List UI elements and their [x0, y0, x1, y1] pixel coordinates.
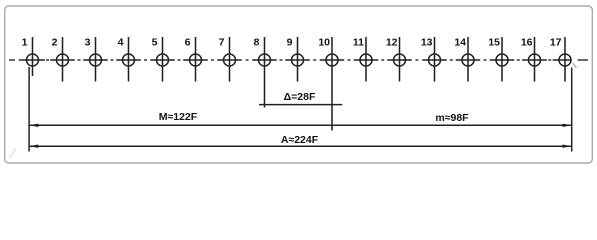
centerline dot between hole 16 and hole 17 [548, 59, 551, 61]
scan artifact slash bottom-left [9, 149, 16, 158]
hole 7 (circle with center mark) [217, 37, 242, 82]
svg-text:17: 17 [550, 37, 562, 49]
centerline dot between hole 11 and hole 12 [381, 59, 384, 61]
dimension line A (overall) [29, 145, 572, 147]
hole 3 (circle with center mark) [83, 37, 108, 82]
outer frame [5, 6, 593, 163]
centerline dot between hole 7 and hole 8 [246, 59, 249, 61]
centerline dot between hole 8 and hole 9 [280, 59, 283, 61]
svg-text:9: 9 [287, 37, 293, 49]
svg-text:1: 1 [22, 37, 28, 49]
arrowhead A left [29, 145, 38, 148]
arrowhead A right [563, 145, 572, 148]
centerline dot between hole 4 and hole 5 [144, 59, 147, 61]
centerline dot between hole 13 and hole 14 [450, 59, 453, 61]
arrowhead M left [29, 124, 38, 127]
hole 15 (circle with center mark) [490, 37, 515, 82]
svg-text:12: 12 [386, 37, 398, 49]
svg-text:13: 13 [421, 37, 433, 49]
centerline dot between hole 3 and hole 4 [111, 59, 114, 61]
centerline dot between hole 9 and hole 10 [313, 59, 316, 61]
hole 6 (circle with center mark) [183, 37, 208, 82]
arrowhead m right [563, 124, 572, 127]
centerline dot between hole 15 and hole 16 [517, 59, 520, 61]
centerline dot between hole 12 and hole 13 [416, 59, 419, 61]
hole 14 (circle with center mark) [456, 37, 481, 82]
hole 9 (circle with center mark) [285, 37, 310, 82]
svg-text:A≈224F: A≈224F [281, 134, 319, 146]
svg-text:4: 4 [118, 37, 124, 49]
hole 1 (circle with center mark) [19, 37, 45, 76]
left extension line (at hole 1) [28, 67, 30, 152]
svg-text:m≈98F: m≈98F [435, 112, 469, 124]
svg-text:5: 5 [152, 37, 158, 49]
centerline trailing dash [578, 59, 589, 61]
hole 5 (circle with center mark) [150, 37, 175, 82]
dimension line M (left ext to hole 10) [29, 124, 332, 126]
dimension line m (hole 10 to right ext) [332, 124, 572, 126]
svg-text:8: 8 [254, 37, 260, 49]
hole 4 (circle with center mark) [116, 37, 141, 82]
centerline dot between hole 5 and hole 6 [178, 59, 181, 61]
scan artifact slash near hole 17 [573, 63, 577, 68]
svg-text:6: 6 [185, 37, 191, 49]
svg-text:14: 14 [454, 37, 466, 49]
right extension line (at hole 17) [571, 68, 573, 152]
hole 2 (circle with center mark) [50, 37, 75, 82]
svg-text:15: 15 [488, 37, 500, 49]
centerline leading dash [9, 59, 15, 61]
hole 16 (circle with center mark) [522, 37, 547, 82]
svg-text:16: 16 [521, 37, 533, 49]
hole 8 (circle with center mark) [252, 37, 277, 108]
svg-text:10: 10 [318, 37, 330, 49]
svg-text:3: 3 [85, 37, 91, 49]
centerline dot between hole 1 and hole 2 [46, 59, 49, 61]
hole 13 (circle with center mark) [422, 37, 447, 82]
centerline dot between hole 2 and hole 3 [78, 59, 81, 61]
hole 10 (circle with center mark) [320, 37, 345, 131]
centerline dot between hole 10 and hole 11 [348, 59, 351, 61]
hole 17 (circle with center mark) [553, 37, 572, 82]
svg-text:7: 7 [219, 37, 225, 49]
svg-text:M≈122F: M≈122F [159, 111, 198, 123]
hole 12 (circle with center mark) [387, 37, 412, 82]
svg-text:2: 2 [52, 37, 58, 49]
svg-text:11: 11 [353, 37, 364, 49]
hole 11 (circle with center mark) [354, 37, 379, 82]
dimension line Delta (holes 8 to 10) [259, 104, 342, 106]
centerline dot between hole 6 and hole 7 [211, 59, 214, 61]
svg-text:Δ=28F: Δ=28F [284, 91, 316, 103]
centerline dot between hole 14 and hole 15 [484, 59, 487, 61]
